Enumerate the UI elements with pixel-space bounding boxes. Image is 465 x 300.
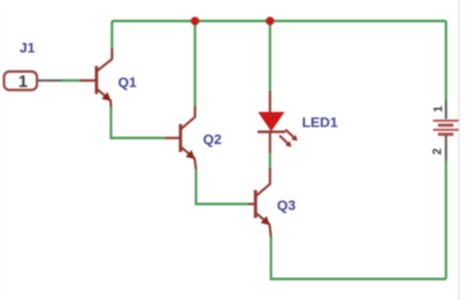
svg-text:2: 2 <box>430 148 444 155</box>
battery bottom pin <box>445 136 447 162</box>
wire Q3 emitter drop <box>270 237 272 279</box>
svg-text:J1: J1 <box>20 40 36 56</box>
svg-text:LED1: LED1 <box>302 114 338 130</box>
wire connector stub (pin) <box>37 79 62 81</box>
battery top pin <box>445 100 447 119</box>
LED1 emission arrow 1 <box>286 130 298 142</box>
LED1 cathode bar <box>258 131 286 134</box>
junction node at LED branch <box>266 17 274 25</box>
transistor Q1 <box>80 48 112 107</box>
connector J1 <box>4 72 37 92</box>
wire top bus <box>112 20 446 22</box>
battery BT1 <box>430 100 458 161</box>
wire bottom <box>270 278 446 280</box>
battery plate short 2 <box>438 133 454 136</box>
LED1 triangle <box>259 113 284 131</box>
battery plate long 2 <box>433 129 459 131</box>
screen edge faint line <box>458 0 460 300</box>
svg-text:1: 1 <box>18 72 27 91</box>
LED LED1 <box>258 91 298 153</box>
Q3 emitter arrow <box>261 216 270 225</box>
wire Q2 emitter to Q3 base <box>196 169 248 204</box>
LED1 emission arrow 2 <box>280 136 292 148</box>
wire Q1 emitter to Q2 base <box>111 107 165 138</box>
wire right vertical below battery <box>445 161 447 279</box>
wire Q2 collector drop <box>194 21 196 106</box>
wire LED anode drop <box>269 21 271 91</box>
transistor Q3 <box>248 168 271 237</box>
svg-text:Q3: Q3 <box>277 197 296 213</box>
wire Q1 collector drop <box>111 21 113 48</box>
Q2 emitter arrow <box>186 150 195 159</box>
svg-text:Q2: Q2 <box>203 131 222 147</box>
battery plate long 1 <box>433 120 459 122</box>
svg-text:1: 1 <box>431 105 445 112</box>
LED1 anode lead <box>269 91 271 113</box>
transistor Q2 <box>165 106 196 169</box>
LED1 cathode lead <box>269 132 271 153</box>
wire LED cathode to Q3 collector <box>269 153 271 168</box>
battery plate short 1 <box>438 124 454 127</box>
wire right vertical (battery branch) <box>445 21 447 100</box>
junction node at Q2 collector <box>191 17 199 25</box>
svg-text:Q1: Q1 <box>118 74 137 90</box>
wire connector to Q1 base <box>62 79 80 81</box>
Q1 emitter arrow <box>102 92 111 101</box>
